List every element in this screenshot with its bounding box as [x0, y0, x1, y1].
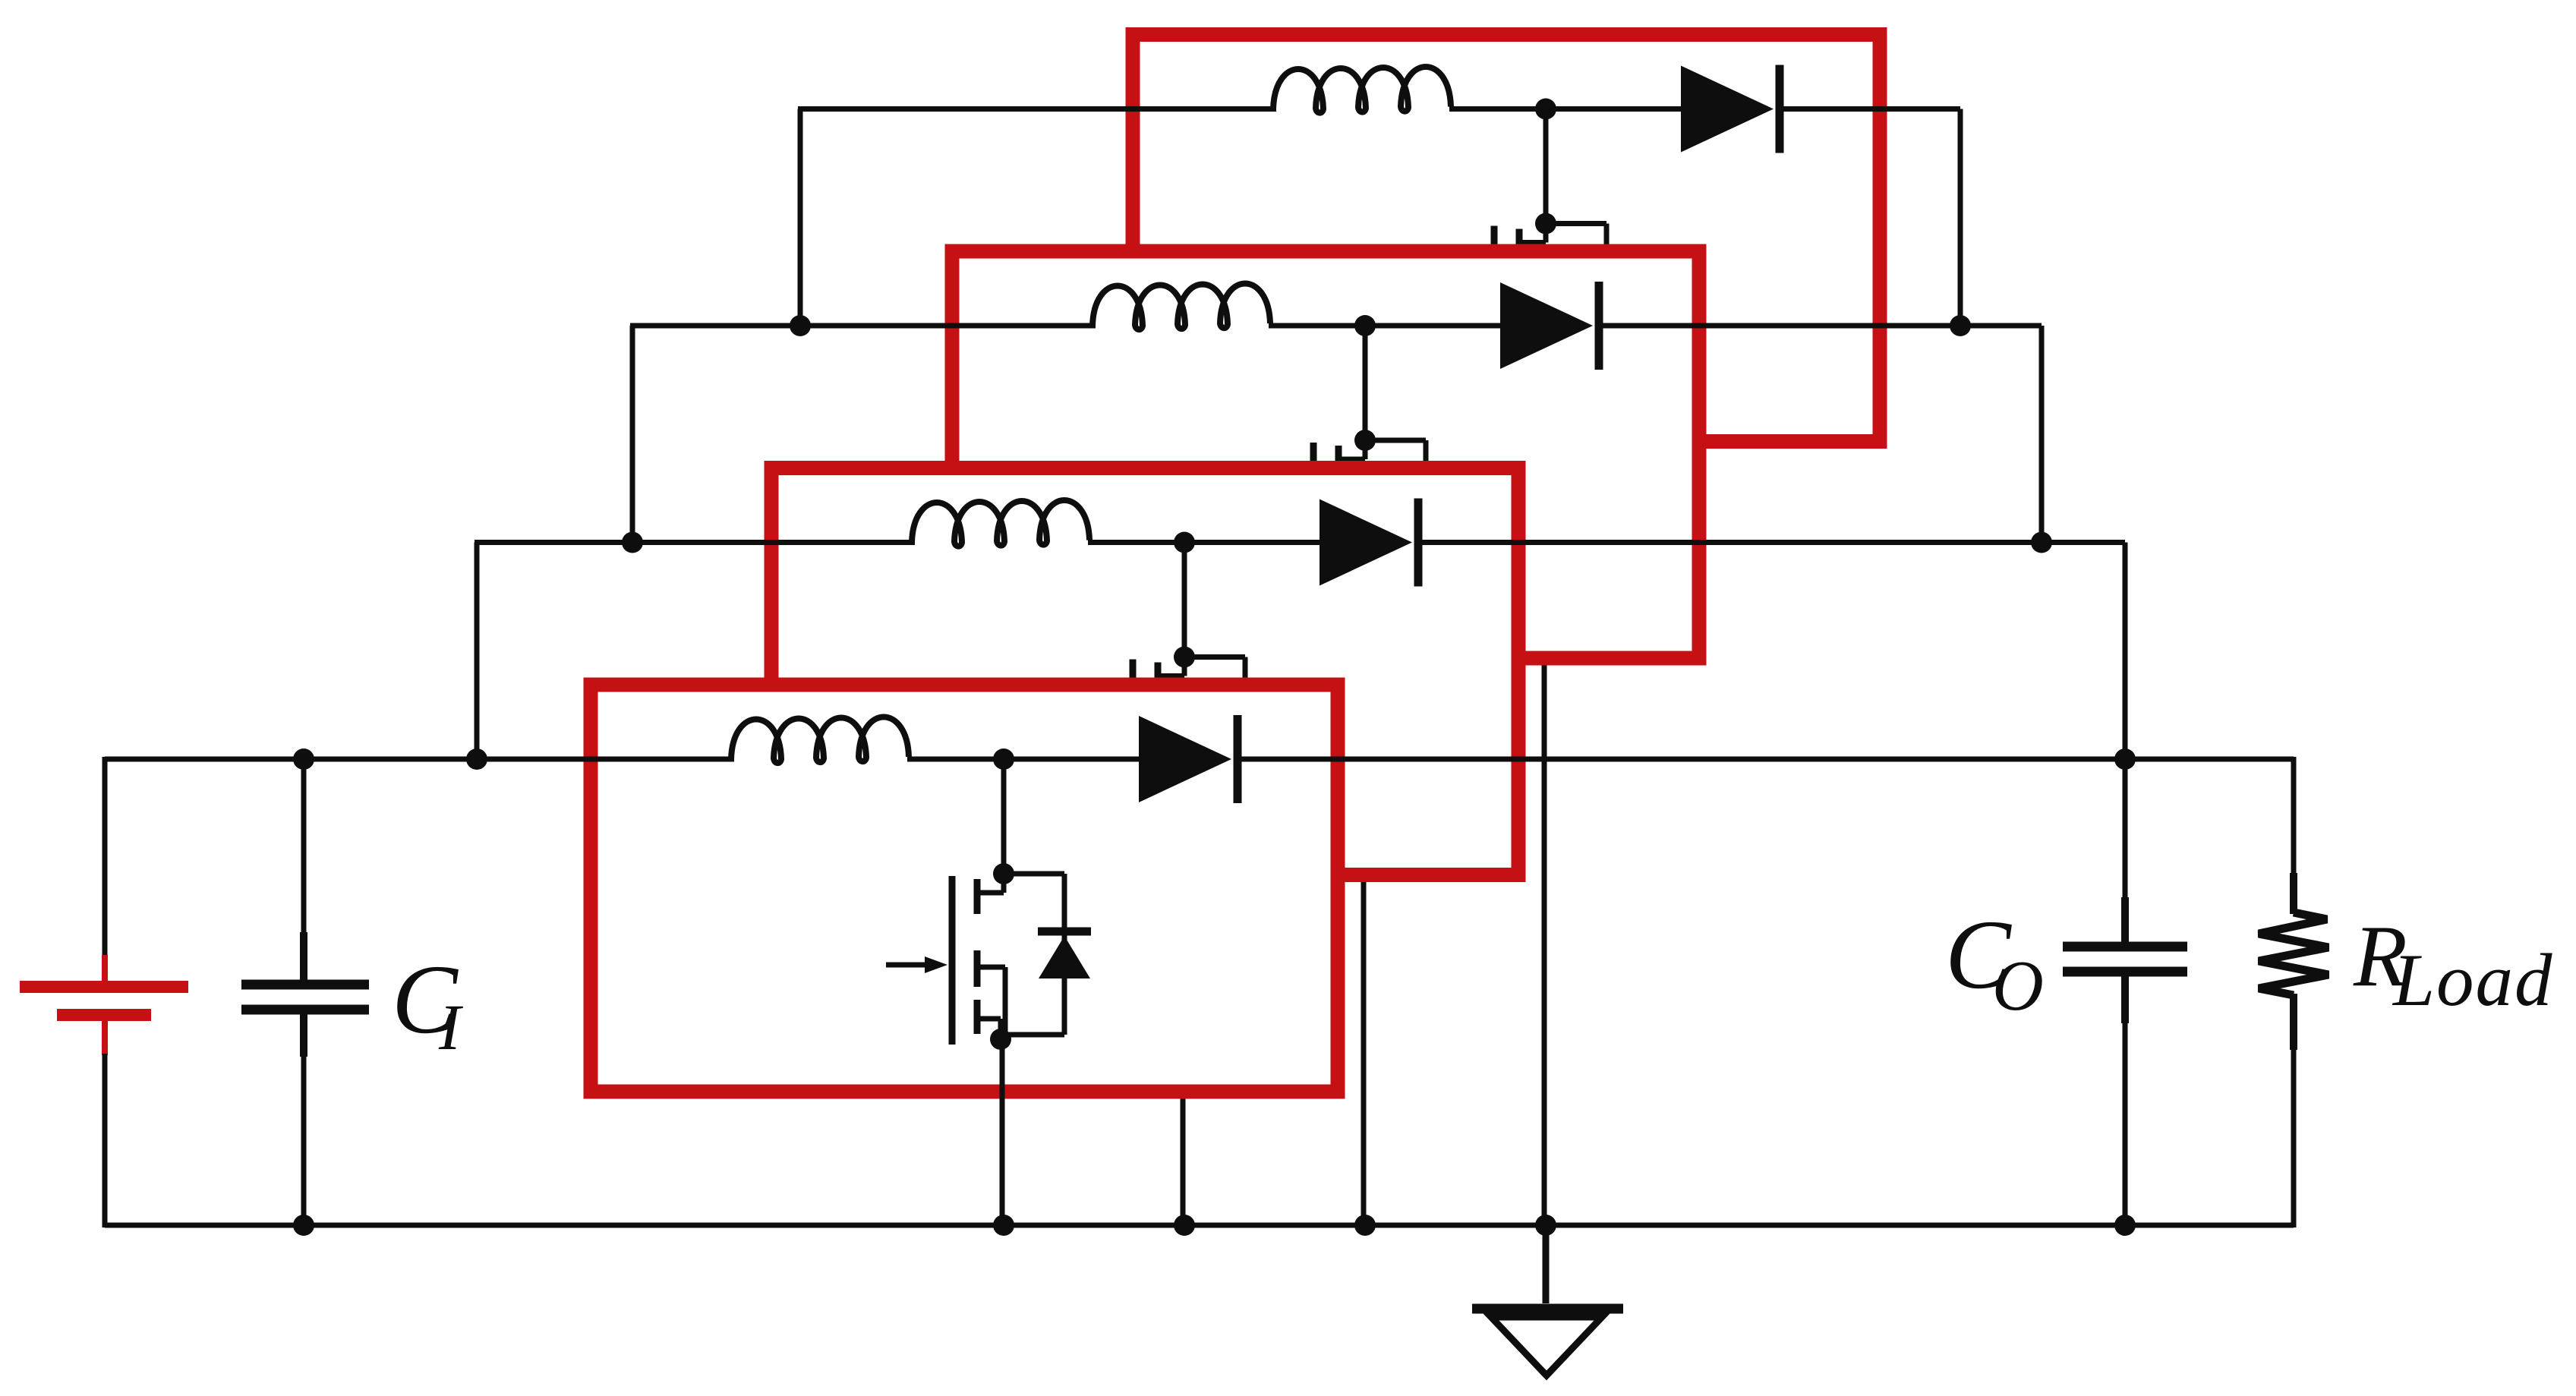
- inductor L4: [1273, 67, 1451, 113]
- transistor Q2 source stub: [1156, 799, 1181, 805]
- transistor Q3 body stub: [1336, 531, 1367, 537]
- transistor Q1 body stub: [975, 965, 1005, 970]
- transistor Q3 body diode: [1399, 494, 1452, 503]
- resistor R_Load: [2290, 873, 2297, 914]
- inductor L3: [1093, 284, 1270, 330]
- transistor Q1 body diode: [1038, 928, 1091, 936]
- diode D3: [1500, 282, 1593, 369]
- node input rail to staircase: [466, 748, 487, 770]
- node input-staircase junction on phase 2 input: [622, 532, 643, 553]
- wire Q3 source to ground rail: [1361, 606, 1367, 1225]
- wire battery positive lead: [102, 757, 108, 955]
- wire output staircase drop from phase 4: [1958, 109, 1963, 329]
- wire phase 4 output: [1780, 106, 1960, 112]
- node Q1 source on ground rail: [993, 1215, 1014, 1236]
- transistor Q2 body-diode loop: [1184, 654, 1245, 660]
- transistor Q3 gate lead arrow: [1247, 529, 1295, 534]
- node Q1 source: [990, 1029, 1011, 1050]
- node output-staircase junction on phase 3 output: [1950, 315, 1971, 336]
- transistor Q4 gate bar: [1491, 226, 1498, 395]
- wire phase 3 input: [630, 323, 1096, 329]
- transistor Q4 gate lead arrow: [1428, 312, 1476, 317]
- node output rail / CO junction: [2114, 748, 2136, 770]
- capacitor CO: [2063, 942, 2187, 952]
- transistor Q2 body stub: [1156, 748, 1186, 753]
- wire phase 2 input: [475, 540, 915, 545]
- transistor Q2 gate lead arrow: [1067, 745, 1115, 751]
- wire phase 1 output: [1238, 757, 2294, 762]
- node Q1 drain: [993, 863, 1014, 884]
- wire N2 to Q2 drain: [1182, 543, 1187, 657]
- diode D1: [1139, 716, 1231, 802]
- transistor Q3 channel segments: [1335, 446, 1342, 481]
- wire capacitor CO top lead: [2123, 759, 2128, 900]
- svg-text:Load: Load: [2392, 939, 2554, 1022]
- node input-staircase junction on phase 3 input: [790, 315, 811, 336]
- phase 2 boost-cell box (red outline): [771, 468, 1518, 875]
- node Q3 source: [1351, 595, 1373, 616]
- wire N1 to Q1 drain: [1001, 759, 1007, 874]
- wire capacitor CI top lead: [301, 757, 307, 935]
- wire Q2 source to ground rail: [1181, 823, 1186, 1226]
- phase 3 boost-cell box (red outline): [952, 251, 1699, 658]
- node Q2 source on ground rail: [1174, 1215, 1195, 1236]
- svg-text:O: O: [1992, 947, 2044, 1026]
- node CI tap on input rail: [293, 748, 314, 770]
- battery V_in (red symbol): [102, 955, 108, 982]
- node CI on ground rail: [293, 1215, 314, 1236]
- wire L3 to diode D3: [1269, 323, 1505, 329]
- node output-staircase junction on phase 2 output: [2031, 532, 2052, 553]
- wire R_Load bottom lead: [2291, 1047, 2297, 1227]
- node Q4 source: [1532, 379, 1553, 400]
- wire phase 3 output: [1599, 323, 2042, 329]
- transistor Q1 source stub: [975, 1016, 1001, 1022]
- wire input rail (Vin top): [105, 757, 734, 762]
- transistor Q1 channel segments: [974, 879, 981, 914]
- transistor Q2 drain stub: [1182, 657, 1187, 676]
- transistor Q4 body stub: [1517, 314, 1547, 320]
- transistor Q3 body-diode loop: [1365, 438, 1426, 443]
- transistor Q1 body-diode loop: [1004, 871, 1064, 877]
- wire output staircase drop from phase 2: [2123, 543, 2128, 762]
- wire capacitor CO bottom lead: [2121, 976, 2129, 1023]
- inductor L2: [912, 500, 1089, 547]
- wire Q4 source to ground rail: [1542, 389, 1547, 1226]
- node Q2 source: [1171, 812, 1192, 834]
- ground symbol: [1543, 1225, 1550, 1303]
- transistor Q4 body-diode loop: [1546, 221, 1606, 226]
- phase 1 boost-cell box (red outline): [591, 685, 1338, 1092]
- node Q2 drain: [1174, 647, 1195, 668]
- transistor Q4 drain stub: [1543, 224, 1549, 243]
- transistor Q3 source stub: [1336, 583, 1362, 588]
- wire Q1 source to ground rail: [1000, 1039, 1005, 1225]
- wire output rail to load corner: [2291, 757, 2297, 877]
- transistor Q2 channel segments: [1155, 663, 1162, 698]
- inductor L1: [731, 717, 909, 764]
- node Q4 source / ground tap on ground rail: [1535, 1215, 1556, 1236]
- wire battery negative lead: [102, 1054, 108, 1227]
- svg-text:I: I: [438, 991, 463, 1064]
- transistor Q2 body diode: [1219, 711, 1272, 719]
- node Q3 source on ground rail: [1354, 1215, 1376, 1236]
- wire N3 to Q3 drain: [1363, 326, 1368, 440]
- transistor Q2 gate bar: [1130, 660, 1137, 828]
- transistor Q3 gate bar: [1310, 443, 1317, 611]
- transistor Q1 gate bar: [949, 876, 956, 1045]
- transistor Q1 gate lead arrow: [886, 963, 934, 968]
- wire phase 4 input: [798, 106, 1276, 112]
- diode D4: [1681, 66, 1774, 153]
- transistor Q1 drain stub: [1001, 874, 1007, 893]
- diode D2: [1320, 499, 1412, 586]
- wire input staircase riser to phase 2: [475, 543, 480, 760]
- capacitor CI: [241, 980, 369, 990]
- node N1 (switch node): [993, 748, 1014, 770]
- wire output staircase drop from phase 3: [2039, 326, 2045, 545]
- node N4 (switch node): [1535, 99, 1556, 120]
- node CO on ground rail: [2114, 1215, 2136, 1236]
- node Q3 drain: [1354, 430, 1376, 451]
- phase 4 boost-cell box (red outline): [1133, 35, 1880, 442]
- wire L2 to diode D2: [1088, 540, 1324, 545]
- wire L1 to diode D1: [907, 757, 1143, 762]
- node N3 (switch node): [1354, 315, 1376, 336]
- transistor Q4 source stub: [1517, 366, 1543, 371]
- wire N4 to Q4 drain: [1543, 109, 1549, 224]
- wire input staircase riser to phase 4: [798, 109, 803, 326]
- transistor Q4 body diode: [1580, 277, 1633, 285]
- node N2 (switch node): [1174, 532, 1195, 553]
- wire L4 to diode D4: [1449, 106, 1685, 112]
- wire ground rail (bottom): [105, 1223, 2294, 1228]
- wire phase 2 output: [1418, 540, 2125, 545]
- transistor Q4 channel segments: [1516, 229, 1523, 264]
- wire capacitor CI bottom lead: [300, 1013, 307, 1057]
- transistor Q3 drain stub: [1363, 440, 1368, 459]
- wire input staircase riser to phase 3: [630, 326, 635, 543]
- node Q4 drain: [1535, 213, 1556, 235]
